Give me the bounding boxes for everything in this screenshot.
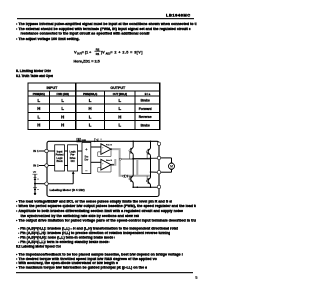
- svg-text:L: L: [89, 98, 92, 103]
- outer frame: [28, 83, 160, 129]
- circuit diagram: [32, 138, 174, 196]
- header part number: [166, 13, 191, 17]
- svg-text:Ctrl: Ctrl: [71, 160, 75, 163]
- transistor Q2: [146, 148, 150, 155]
- pin VREF terminal: [45, 182, 48, 185]
- truth table: [28, 83, 160, 129]
- svg-text:PWM(IN1): PWM(IN1): [33, 92, 45, 96]
- column lines: [49, 91, 51, 129]
- freewheel diode D1: [119, 158, 128, 178]
- svg-text:L: L: [118, 123, 121, 128]
- svg-text:Here,ZD1 = 2.5: Here,ZD1 = 2.5: [74, 59, 100, 63]
- feedback arrow from bottom rail into logic block: [48, 171, 74, 184]
- svg-text:L: L: [61, 98, 64, 103]
- svg-text:H: H: [89, 106, 92, 111]
- svg-text:Logic: Logic: [57, 158, 64, 160]
- svg-text:Pre-: Pre-: [70, 155, 75, 157]
- svg-text:Block: Block: [56, 161, 63, 163]
- svg-text:L: L: [37, 98, 40, 103]
- svg-text:IN 2: IN 2: [33, 164, 39, 168]
- formula Vout line: [74, 47, 144, 63]
- transistor Q4: [146, 178, 150, 185]
- svg-text:H: H: [37, 123, 40, 128]
- header rule: [17, 18, 194, 19]
- pin OUT1 terminal: [157, 156, 160, 159]
- svg-text:L: L: [89, 123, 92, 128]
- row lines: [28, 90, 160, 92]
- H-bridge rail wires: [133, 141, 157, 187]
- transistor Q3: [129, 176, 133, 183]
- svg-text:Pch B: Pch B: [106, 145, 112, 147]
- svg-text:Brake: Brake: [141, 123, 150, 127]
- svg-text:H: H: [118, 114, 121, 119]
- svg-text:L: L: [37, 114, 40, 119]
- charge pump symbols on VCC rail: [77, 138, 102, 142]
- svg-text:5: 5: [195, 275, 198, 280]
- svg-text:)V: )V: [101, 50, 105, 54]
- motor M load: [161, 158, 175, 172]
- node junction dots: [111, 141, 152, 189]
- svg-text:−: −: [85, 168, 88, 173]
- svg-text:L: L: [61, 106, 64, 111]
- svg-text:Labeling Motor (D 4 1/2r): Labeling Motor (D 4 1/2r): [50, 188, 85, 192]
- svg-text:R1: R1: [96, 52, 100, 56]
- gate drive bus wires (gray): [112, 149, 151, 176]
- pin GND terminal: [157, 185, 160, 188]
- bottom bullets: [16, 253, 183, 257]
- svg-text:PWM(IN3,4): PWM(IN3,4): [83, 92, 97, 96]
- block U2 logic pre-drive: [68, 145, 78, 171]
- svg-text:H: H: [61, 114, 64, 119]
- svg-text:IN 1: IN 1: [33, 149, 39, 153]
- section heading 8: [16, 69, 51, 73]
- svg-text:L: L: [118, 106, 121, 111]
- svg-text:= 2 + 2.5 = 3[V]: = 2 + 2.5 = 3[V]: [110, 50, 143, 54]
- svg-text:R2: R2: [96, 47, 100, 51]
- block U1 input protect logic: [55, 142, 91, 173]
- top bullet paragraph: [16, 22, 197, 26]
- left input labels and wires: [33, 149, 45, 167]
- section heading 8.1: [16, 75, 53, 79]
- svg-text:L: L: [118, 98, 121, 103]
- svg-text:FWD (IN2): FWD (IN2): [57, 92, 70, 96]
- table text: [33, 86, 152, 128]
- svg-text:VR: VR: [33, 170, 37, 174]
- pin IN2 terminal: [45, 164, 48, 167]
- svg-text:INPUT: INPUT: [47, 86, 59, 90]
- svg-text:M: M: [170, 165, 173, 169]
- svg-text:Drive: Drive: [70, 158, 76, 160]
- wire OUT1 / wire OUT2 to pins: [133, 158, 157, 172]
- voltage reference VR, capacitor, battery and ground: [32, 170, 44, 195]
- svg-text:Forward: Forward: [139, 107, 152, 111]
- svg-text:Input: Input: [57, 150, 63, 153]
- svg-text:H: H: [37, 106, 40, 111]
- pin IN1 terminal: [45, 149, 48, 152]
- svg-text:Brake: Brake: [141, 99, 150, 103]
- svg-text:Protect: Protect: [56, 154, 64, 157]
- pin sub-list: [18, 227, 178, 231]
- pin OUT2 terminal: [157, 171, 160, 174]
- footer rule: [16, 272, 193, 273]
- svg-text:Logic: Logic: [70, 151, 77, 153]
- svg-text:Nch B: Nch B: [106, 160, 113, 162]
- post-diagram bullets: [16, 200, 172, 204]
- transistor Q1: [129, 147, 133, 154]
- gate stubs: [130, 152, 147, 180]
- svg-text:OUTPUT: OUTPUT: [110, 86, 126, 90]
- svg-text:Reverse: Reverse: [139, 115, 152, 119]
- block U3 comparator source driver: [82, 142, 91, 173]
- svg-text:H: H: [61, 123, 64, 128]
- section heading 8.2: [16, 245, 61, 249]
- svg-text:OUT [IN3,4]: OUT [IN3,4]: [113, 92, 127, 96]
- svg-text:B I a: B I a: [145, 92, 151, 96]
- block interconnect wires: [48, 147, 101, 166]
- IC outline: [47, 141, 159, 196]
- svg-text:= (1 +: = (1 +: [82, 50, 91, 54]
- svg-text:L: L: [89, 114, 92, 119]
- svg-text:+: +: [85, 147, 88, 152]
- op-amp A2: [98, 159, 113, 172]
- op-amp A1: [98, 144, 117, 157]
- pin VCC terminal: [157, 142, 160, 145]
